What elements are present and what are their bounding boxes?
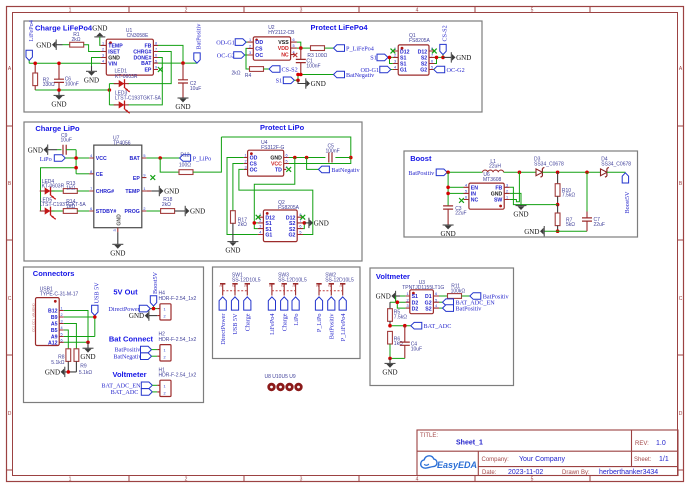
wire CE xyxy=(76,173,89,175)
svg-text:7.5kΩ: 7.5kΩ xyxy=(394,314,407,320)
junction gnd node xyxy=(388,357,392,361)
svg-text:NC: NC xyxy=(281,53,289,59)
svg-text:3: 3 xyxy=(259,225,261,229)
LED LED3 xyxy=(114,90,162,114)
svg-text:5: 5 xyxy=(531,477,534,483)
svg-text:6: 6 xyxy=(155,54,157,58)
resistor R1 xyxy=(70,32,84,47)
resistor R10 xyxy=(555,172,575,204)
svg-text:100nF: 100nF xyxy=(306,63,320,69)
svg-text:6: 6 xyxy=(299,225,301,229)
svg-text:G2: G2 xyxy=(420,68,427,74)
svg-text:B9: B9 xyxy=(51,315,58,321)
svg-text:5: 5 xyxy=(60,333,62,337)
svg-text:R12: R12 xyxy=(180,153,189,159)
svg-text:EP: EP xyxy=(144,68,151,74)
svg-text:3: 3 xyxy=(244,166,246,170)
svg-text:2: 2 xyxy=(143,207,145,211)
wire R12 to VDD rail xyxy=(193,137,221,172)
svg-text:SS-12D10L5: SS-12D10L5 xyxy=(325,277,354,283)
svg-text:2: 2 xyxy=(231,285,235,287)
svg-text:Sheet:: Sheet: xyxy=(634,457,652,463)
svg-text:Boost5V: Boost5V xyxy=(624,191,631,214)
wire bottom gnd rail boost xyxy=(544,230,587,232)
net flag P_LiFePo4 xyxy=(334,45,374,53)
svg-text:3: 3 xyxy=(315,285,319,287)
resistor R4 xyxy=(232,67,264,79)
wire OD-G1 to Q1 G1 xyxy=(391,69,393,71)
svg-text:5: 5 xyxy=(465,190,467,194)
svg-text:TEMP: TEMP xyxy=(125,189,140,195)
wire BatPositiv to H2 pin1 xyxy=(152,349,158,351)
svg-text:1: 1 xyxy=(339,285,343,287)
svg-text:VDD: VDD xyxy=(278,46,289,52)
svg-text:S2: S2 xyxy=(425,306,431,312)
svg-text:3: 3 xyxy=(60,320,62,324)
capacitor C2 xyxy=(178,63,201,98)
junction LiPo VCC xyxy=(74,156,78,160)
svg-text:2: 2 xyxy=(164,315,166,319)
svg-text:OD-G1: OD-G1 xyxy=(361,67,380,74)
svg-text:1: 1 xyxy=(164,308,166,312)
svg-text:EasyEDA: EasyEDA xyxy=(437,460,477,470)
junction IN xyxy=(446,192,450,196)
junction VDD node xyxy=(299,46,303,50)
svg-text:GND: GND xyxy=(116,214,122,226)
svg-text:SS-12D10L5: SS-12D10L5 xyxy=(278,277,307,283)
net flag USB 5V at SW1 xyxy=(231,297,239,335)
svg-text:6: 6 xyxy=(431,60,433,64)
ground GND below R8 xyxy=(45,367,65,377)
svg-text:1: 1 xyxy=(249,38,251,42)
ground GND below C6 xyxy=(51,90,66,108)
wire BAT to BatPositiv xyxy=(158,62,197,64)
svg-text:TITLE:: TITLE: xyxy=(420,433,438,439)
svg-text:7: 7 xyxy=(431,54,433,58)
ic U6 MT3608 xyxy=(464,172,510,209)
net flag S1 at Q1 xyxy=(370,54,388,62)
svg-text:G1: G1 xyxy=(400,68,407,74)
svg-text:5kΩ: 5kΩ xyxy=(566,222,575,228)
junction VDD C5 xyxy=(349,156,353,160)
resistor R9 xyxy=(74,349,92,376)
svg-text:G1: G1 xyxy=(265,233,272,239)
wire Q1 S2 ties xyxy=(435,55,444,64)
wire IN row xyxy=(448,192,463,194)
svg-text:BatNegativ: BatNegativ xyxy=(113,353,142,360)
svg-text:22uF: 22uF xyxy=(594,222,605,228)
ground GND right of R18 xyxy=(175,206,206,216)
junction D2 tie xyxy=(396,300,400,304)
net flag Charge at SW3 xyxy=(281,297,289,331)
svg-text:2: 2 xyxy=(185,477,188,483)
svg-text:Charge LiPo: Charge LiPo xyxy=(35,124,80,133)
svg-text:2: 2 xyxy=(506,190,508,194)
svg-text:BatPositiv: BatPositiv xyxy=(456,306,483,313)
section box Charge/Protect LiFePo4 xyxy=(24,21,482,112)
wire S1 to rail xyxy=(294,75,298,81)
LED LED1 xyxy=(114,68,138,92)
svg-text:1: 1 xyxy=(69,477,72,483)
ground GND at H4 pin2 xyxy=(129,310,157,320)
diode D4 xyxy=(601,157,632,178)
no-connect X on Q2 D12 pin8 xyxy=(300,215,305,220)
svg-text:FS8205A: FS8205A xyxy=(278,205,300,211)
ground GND below C2 xyxy=(175,98,190,112)
svg-text:3: 3 xyxy=(300,477,303,483)
junction FB divider xyxy=(556,203,560,207)
svg-text:5.1kΩ: 5.1kΩ xyxy=(79,370,92,376)
frame column numbers bottom xyxy=(69,477,534,483)
junction S1 node xyxy=(296,73,300,77)
svg-text:4: 4 xyxy=(394,66,396,70)
ic U1 CN3058E charger xyxy=(101,28,158,75)
svg-text:VCC: VCC xyxy=(96,156,107,162)
wire R3 to P_LiFePo4 xyxy=(325,47,334,49)
svg-text:TPNTJD1155LT1G: TPNTJD1155LT1G xyxy=(402,285,444,291)
svg-text:Sheet_1: Sheet_1 xyxy=(456,440,483,447)
svg-text:S2: S2 xyxy=(421,56,427,62)
svg-text:4: 4 xyxy=(416,8,419,14)
wire LED3 anode xyxy=(109,104,118,106)
wire GND to C9 xyxy=(48,149,57,151)
svg-text:CHRG#: CHRG# xyxy=(96,189,114,195)
svg-text:SS34_C0678: SS34_C0678 xyxy=(601,161,631,167)
svg-text:2: 2 xyxy=(249,45,251,49)
svg-text:KT-0603R: KT-0603R xyxy=(42,184,65,190)
svg-text:9: 9 xyxy=(143,174,145,178)
junction R5 bottom xyxy=(388,324,392,328)
wire LED branch xyxy=(41,168,77,211)
svg-text:3: 3 xyxy=(219,285,223,287)
svg-text:S1: S1 xyxy=(370,55,377,62)
svg-text:100Ω: 100Ω xyxy=(179,162,191,168)
svg-text:VBUS: VBUS xyxy=(32,309,36,317)
svg-text:Voltmeter: Voltmeter xyxy=(113,370,147,379)
svg-text:SS34_C0678: SS34_C0678 xyxy=(534,161,564,167)
svg-text:3: 3 xyxy=(394,60,396,64)
section box Voltmeter xyxy=(370,268,514,386)
switch SW1 SS-12D10L5 xyxy=(219,272,261,295)
svg-text:S1: S1 xyxy=(412,294,418,300)
svg-text:3: 3 xyxy=(249,51,251,55)
ground GND left of C9 xyxy=(28,145,48,155)
ground GND below USB1 xyxy=(80,342,95,361)
junction VIN rail at C6 xyxy=(57,62,61,66)
no-connect X on U7 EP xyxy=(150,175,155,180)
svg-text:LiPo: LiPo xyxy=(40,156,52,163)
svg-text:5: 5 xyxy=(435,298,437,302)
wire Q2 S1 ties xyxy=(254,223,258,229)
wire USB1 A9 xyxy=(64,336,95,338)
svg-text:NC: NC xyxy=(471,198,479,204)
junction VIN rail at R2 xyxy=(33,62,37,66)
resistor R17 xyxy=(231,211,248,229)
ground GND right of U7 TEMP xyxy=(146,186,179,196)
wire GND row to BatNegativ xyxy=(307,158,319,170)
wire LiPo flag to VCC xyxy=(65,157,89,159)
svg-text:REV:: REV: xyxy=(635,441,649,447)
wire Boost5V to H4 pin1 xyxy=(150,306,157,309)
wire FB to BAT node xyxy=(158,45,183,63)
ground GND below R6 xyxy=(382,358,397,376)
ground GND right of Q2 xyxy=(304,218,329,228)
net flag P_LiPo at SW2 xyxy=(315,297,323,332)
wire GND row to Q2 S1 xyxy=(254,158,294,223)
frame row letters left xyxy=(8,66,12,417)
wire U4 OC to Q2 G2 xyxy=(239,169,313,234)
wire VDD top rail xyxy=(221,137,350,164)
transistor Q2 FS8205A xyxy=(258,200,303,242)
junction C1 bottom xyxy=(299,73,303,77)
net flag Boost5V boost output xyxy=(622,173,631,214)
svg-text:3: 3 xyxy=(113,229,117,231)
wire boost input column xyxy=(447,172,449,206)
svg-text:BAT: BAT xyxy=(141,61,152,67)
svg-text:HY2112-CB: HY2112-CB xyxy=(268,30,295,36)
svg-text:S1: S1 xyxy=(276,78,283,85)
wire SW to boost node xyxy=(510,172,520,202)
wire U6 GND pin xyxy=(510,193,521,205)
ground GND below C3 xyxy=(441,225,456,239)
svg-text:D12: D12 xyxy=(418,49,428,55)
svg-text:P_LiPo: P_LiPo xyxy=(193,155,212,162)
svg-text:HDR-F-2.54_1x2: HDR-F-2.54_1x2 xyxy=(159,373,197,379)
net flag BAT_ADC_EN at H1 xyxy=(101,382,152,390)
svg-text:1: 1 xyxy=(292,285,296,287)
net flag LiFePo4 at SW3 xyxy=(268,297,276,335)
svg-text:1: 1 xyxy=(406,292,408,296)
EasyEDA logo cloud xyxy=(421,456,437,468)
svg-text:4: 4 xyxy=(416,477,419,483)
header H4 HDR-F-2.54 1x2 xyxy=(157,291,196,320)
junction BAT R12 xyxy=(158,156,162,160)
wire BAT_ADC_EN to H1 pin1 xyxy=(152,384,157,386)
resistor R18 xyxy=(146,197,174,213)
net flag BatNegativ xyxy=(334,71,376,79)
svg-text:OD-G1: OD-G1 xyxy=(216,40,235,47)
svg-text:1/1: 1/1 xyxy=(659,456,669,463)
svg-text:TYPE-C-31-M-17: TYPE-C-31-M-17 xyxy=(40,292,79,298)
svg-text:FS312F-G: FS312F-G xyxy=(261,145,284,151)
svg-text:P_LiFePo4: P_LiFePo4 xyxy=(340,314,347,342)
section box Switches xyxy=(213,267,361,359)
resistor R3 xyxy=(307,46,327,59)
net flag DirectPower xyxy=(108,305,150,312)
no-connect X on U4 TD xyxy=(286,167,291,172)
junction Q1 S1 tie xyxy=(388,56,392,60)
svg-text:2: 2 xyxy=(328,285,332,287)
connector USB1 TYPE-C-31-M-17 xyxy=(32,286,79,346)
junction R10 top xyxy=(556,171,560,175)
svg-text:2kΩ: 2kΩ xyxy=(232,70,241,76)
no-connect X on U6 NC xyxy=(459,198,464,203)
junction U4 GND row left xyxy=(293,156,297,160)
svg-text:SW: SW xyxy=(494,198,502,204)
svg-text:2kΩ: 2kΩ xyxy=(238,222,247,228)
wire OD-G1 to U2 OD xyxy=(246,41,247,43)
svg-text:BatPositiv: BatPositiv xyxy=(329,313,336,340)
wire R8 R9 bottoms to gnd xyxy=(65,361,77,372)
ground GND above U1 TEMP xyxy=(92,25,107,38)
svg-text:S1: S1 xyxy=(400,56,406,62)
svg-text:100nF: 100nF xyxy=(326,149,340,155)
svg-text:D: D xyxy=(8,411,12,417)
net flag BAT_ADC_EN at U3 xyxy=(439,299,495,307)
svg-text:5: 5 xyxy=(143,154,145,158)
svg-text:4: 4 xyxy=(259,231,261,235)
svg-text:MT3608: MT3608 xyxy=(483,177,502,183)
wire Q2 S2 ties xyxy=(303,223,304,229)
svg-text:LTST-C193TGKT-5A: LTST-C193TGKT-5A xyxy=(115,96,162,102)
svg-text:Voltmeter: Voltmeter xyxy=(376,272,410,281)
svg-text:6: 6 xyxy=(435,292,437,296)
net flag Charge at SW1 xyxy=(244,297,252,331)
wire GND branch to D2 pins xyxy=(390,296,406,308)
svg-text:Charge LiFePo4: Charge LiFePo4 xyxy=(35,24,93,33)
no-connect X on U1 EP xyxy=(158,67,163,72)
wire VCC column xyxy=(75,150,77,174)
net flag BatPositiv at U3 S2 xyxy=(439,305,482,313)
diode D3 xyxy=(534,157,564,178)
svg-text:P_LiFePo4: P_LiFePo4 xyxy=(346,46,374,53)
svg-text:BAT_ADC: BAT_ADC xyxy=(111,389,139,396)
svg-text:2: 2 xyxy=(244,160,246,164)
svg-text:CC1: CC1 xyxy=(32,319,36,325)
svg-text:STDBY#: STDBY# xyxy=(96,209,117,215)
svg-text:6: 6 xyxy=(60,338,62,342)
wire U4 CS to R17 xyxy=(233,164,244,211)
svg-text:1kΩ: 1kΩ xyxy=(66,186,75,192)
svg-text:FB: FB xyxy=(144,44,151,50)
transistor Q1 FS8205A xyxy=(393,33,435,75)
svg-text:CS-S2: CS-S2 xyxy=(442,25,449,41)
svg-text:SS-12D10L5: SS-12D10L5 xyxy=(232,277,261,283)
svg-text:10uF: 10uF xyxy=(411,346,422,352)
capacitor C1 xyxy=(296,48,321,74)
svg-text:1: 1 xyxy=(60,307,62,311)
wire USB1 B12 to gnd xyxy=(64,311,88,343)
svg-text:CS-S2: CS-S2 xyxy=(282,66,298,73)
svg-text:9: 9 xyxy=(155,66,157,70)
svg-text:LiFePo4: LiFePo4 xyxy=(269,314,276,335)
svg-text:G2: G2 xyxy=(288,233,295,239)
svg-text:BatPositiv: BatPositiv xyxy=(196,23,203,50)
svg-text:CE: CE xyxy=(96,172,104,178)
svg-text:herberthanker3434: herberthanker3434 xyxy=(599,469,658,476)
svg-text:4: 4 xyxy=(102,60,104,64)
capacitor C9 xyxy=(61,133,72,155)
svg-text:4: 4 xyxy=(435,304,437,308)
svg-text:OC: OC xyxy=(255,53,263,59)
svg-text:Your Company: Your Company xyxy=(519,456,566,463)
svg-text:4: 4 xyxy=(90,154,92,158)
LED LED5 xyxy=(40,197,87,220)
wire BAT junction down to R12 xyxy=(160,158,179,172)
svg-text:EP: EP xyxy=(133,176,140,182)
svg-text:OC-G2: OC-G2 xyxy=(447,67,465,74)
wire GND to R1 xyxy=(56,44,62,46)
junction Q2 S1 xyxy=(253,221,257,225)
net flag BatNegativ at H2 xyxy=(113,353,151,360)
svg-text:5: 5 xyxy=(299,231,301,235)
svg-text:3: 3 xyxy=(300,8,303,14)
svg-text:FB: FB xyxy=(495,186,502,192)
ic U2 HY2112-CB xyxy=(248,25,297,60)
wire divider join xyxy=(551,204,558,206)
net flag Boost5V at H4 xyxy=(150,271,159,306)
header H1 HDR-F-2.54 1x2 xyxy=(157,367,196,396)
junction H4 pin1 xyxy=(152,307,156,311)
wire D4 to Boost5V xyxy=(607,171,626,173)
svg-text:Connectors: Connectors xyxy=(33,269,75,278)
wire VDD to R3 xyxy=(297,47,311,49)
wire BAT_ADC to H1 pin2 xyxy=(152,391,157,393)
svg-text:3: 3 xyxy=(268,285,272,287)
net flag OC-G2 at Q1 xyxy=(434,66,465,74)
wire U2 CS to R4 xyxy=(246,48,250,69)
title block frame xyxy=(417,430,678,476)
svg-text:5: 5 xyxy=(431,66,433,70)
svg-text:3: 3 xyxy=(406,304,408,308)
svg-text:7: 7 xyxy=(90,187,92,191)
resistor R5 xyxy=(388,302,408,326)
capacitor C6 xyxy=(54,63,79,90)
svg-text:OD: OD xyxy=(255,40,263,46)
net flag OC-G2 left xyxy=(217,52,245,60)
svg-text:2: 2 xyxy=(164,391,166,395)
resistor R6 xyxy=(388,331,403,358)
ground GND left of R7 bottom xyxy=(524,226,544,236)
wire R4 to CS-S2 flag xyxy=(264,68,270,70)
net flag BatPositiv boost xyxy=(408,169,447,177)
no-connect X on Q1 D12 pin1 xyxy=(391,49,396,54)
wire USB1 B9 to USB-5V xyxy=(64,316,95,337)
wire divider to BAT_ADC xyxy=(390,325,411,327)
net flag BatPositiv top xyxy=(194,23,203,63)
svg-text:CC2: CC2 xyxy=(32,326,36,332)
net flag LiPo at SW3 xyxy=(292,297,300,326)
svg-text:1: 1 xyxy=(69,8,72,14)
svg-text:1.0: 1.0 xyxy=(656,440,666,447)
svg-text:D: D xyxy=(679,411,683,417)
junction USB gnd xyxy=(86,341,90,345)
svg-text:2: 2 xyxy=(185,8,188,14)
svg-text:CN3058E: CN3058E xyxy=(127,33,149,39)
resistor R14 xyxy=(52,199,90,213)
svg-text:6: 6 xyxy=(90,207,92,211)
svg-text:LTST-C193TGKT-5A: LTST-C193TGKT-5A xyxy=(40,202,87,208)
svg-text:HDR-F-2.54_1x2: HDR-F-2.54_1x2 xyxy=(159,337,197,343)
svg-text:GND: GND xyxy=(32,303,36,311)
wire USB1 A5 to R9 xyxy=(64,324,77,349)
svg-text:1: 1 xyxy=(506,196,508,200)
wire bottom rail R2 C6 LEDs xyxy=(35,89,109,91)
svg-text:5: 5 xyxy=(292,44,294,48)
ground GND below U6 xyxy=(513,205,528,219)
svg-text:B12: B12 xyxy=(48,309,58,315)
wire BatPositiv to L1 xyxy=(447,171,482,173)
junction boost input xyxy=(446,171,450,175)
svg-text:6: 6 xyxy=(285,154,287,158)
svg-text:5V Out: 5V Out xyxy=(113,288,138,297)
svg-text:100nF: 100nF xyxy=(65,81,79,87)
svg-text:BatPositiv: BatPositiv xyxy=(408,170,435,177)
svg-text:KT-0603R: KT-0603R xyxy=(115,74,138,80)
svg-text:2: 2 xyxy=(164,356,166,360)
svg-text:2kΩ: 2kΩ xyxy=(72,37,81,43)
switch SW3 SS-12D10L5 xyxy=(268,272,307,295)
